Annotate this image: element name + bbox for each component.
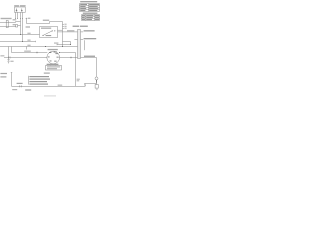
wire from edge y22.5 [0,22,16,23]
wire W1 to harness bracket [27,22,63,24]
wire regulator jog horizontal [63,41,71,43]
pin dots on leads [15,17,23,20]
wire label left edge [0,55,4,56]
terminal spade [26,17,28,20]
diode module D1 title [14,5,19,6]
notes line 2 [29,79,50,80]
wire label WHT [27,45,30,46]
inline tick on wire A [37,52,38,53]
bottom bus wire y85.5 [12,85,86,87]
wire y44.5 label [54,43,58,44]
table 1 cell text [80,4,99,11]
starter motor M box [95,85,98,89]
key switch SW1 circle [47,51,60,64]
table 2 cell text [82,15,99,20]
ground below starter [96,88,98,91]
wire vertical bus to wire y41.5 [22,19,24,42]
vertical from bus to wire A [11,47,13,53]
junction dot [22,41,23,42]
switch S1 box [40,27,58,38]
diode CR2 [21,8,22,11]
wire lead 1 from diode module [15,12,17,18]
harness bracket vertical [62,22,64,47]
wire from bus to starter y83.5 [85,83,97,85]
terminal tick at W4 end [35,41,37,42]
junction dot [70,44,71,45]
switch S1 contact dots [43,30,56,36]
battery below wire B [8,58,10,64]
terminal tick [56,44,58,45]
connector label [17,83,23,84]
wire key left A y52.5 [12,52,48,54]
diode CR1 [16,8,17,11]
part number faint [44,95,56,96]
wire lead 3 from diode module [20,12,22,18]
wire W5 ground bus y46.5 [0,46,78,48]
key switch position box [46,66,62,71]
note text below [12,89,17,90]
wire label BLK [27,40,30,41]
note heading [25,89,31,90]
key switch stubs to box [51,64,56,66]
inline connector ticks on wire B right [71,57,72,58]
solenoid stub down [96,80,98,85]
spade label [28,18,31,19]
wire from edge y26.5 [0,26,16,28]
vertical from bus to wire B [8,47,10,58]
junction dot on bus [45,46,46,47]
label TO STARTER [84,56,95,57]
wire W4 y41.5 [0,41,36,43]
label TO REGULATOR [84,38,97,39]
stub below bus [26,47,28,50]
wire stub to bus [16,21,21,23]
bracket stub a label [64,24,66,25]
wire vertical bus to wire y34.5 [20,19,22,35]
connector J1 label [1,18,12,19]
bracket stub a [63,23,64,25]
connector J1 box [6,21,8,28]
wire label above [24,51,31,52]
key switch terminal marks [48,52,59,62]
wire stub regulator right [81,39,84,41]
engine connector J2 box [78,30,81,59]
bracket stub b [63,25,64,27]
wire starter vertical x96.5 [96,58,98,77]
notes line 1 [29,76,49,77]
wire regulator jog vertical [70,42,72,45]
bracket stub c [63,27,64,29]
diode module D1 box [15,7,26,12]
wire key left B y57.5 [4,57,47,59]
wire label RED [27,33,30,34]
wire key right B y57.5 to engine connector [59,57,77,59]
table 2 grid [82,15,100,21]
battery label lines bottom left [0,73,7,74]
bracket stub b label [64,26,66,27]
wire stub 2 to bus [18,25,21,27]
switch S1 bottom text [46,35,52,36]
junction dot [20,34,21,35]
wire label near corner [26,26,30,27]
table 1 grid [80,4,100,12]
engine connector title [73,26,80,27]
junction dot at circle right A [58,51,61,54]
notes line 3 [29,81,47,82]
corner vertical x75.5 down to bottom bus [75,53,77,87]
switch S1 inner text [41,28,51,29]
wire W2 label [67,30,74,31]
solenoid side tick [96,80,97,82]
junction dot on bus at bracket [62,46,63,47]
wire W3 main y34.5 [0,34,40,36]
label TO MAGNETO [84,30,95,31]
key switch label below [47,64,59,65]
wire y44.5 [57,44,71,46]
inline connector at x84-86 [84,83,87,86]
engine connector pin 2 [79,30,81,58]
key switch SW1 label above [48,49,58,50]
notes line 4 [29,84,48,85]
wire lead 2 from diode module [17,12,19,18]
wire to magneto [81,31,84,33]
wire label mid [58,85,63,86]
bracket stub c label [64,28,66,29]
table 1 header [80,1,97,2]
table 2 header [83,13,98,14]
wire key right A y52.5 to corner [59,52,75,54]
engine connector pin 1 [78,30,80,58]
note text L.R. [44,73,50,74]
wire label [13,19,17,20]
switch S1 right stub [58,29,63,31]
wire lead 4 from diode module [22,12,24,18]
position box text row2 [47,68,57,69]
inline component on stub [16,25,18,27]
battery positive lead vertical [11,73,12,87]
wire stub regulator left [74,39,77,41]
battery label [10,61,13,62]
notes list bracket [28,76,30,85]
wire color labels near vertical [77,79,80,80]
wire to starter y57.5 [81,57,97,59]
wire label [13,24,16,25]
switch S1 label above [43,20,49,21]
wire W2 magneto feed [58,31,78,33]
starter solenoid circle [95,77,98,80]
inline connector on wire B [9,56,11,58]
wire stub down from regulator label [84,40,86,50]
position box text row1 [47,66,60,67]
switch S1 blade [43,31,52,36]
wire vertical from terminal [26,19,28,24]
inline connector on bottom bus [20,85,21,87]
